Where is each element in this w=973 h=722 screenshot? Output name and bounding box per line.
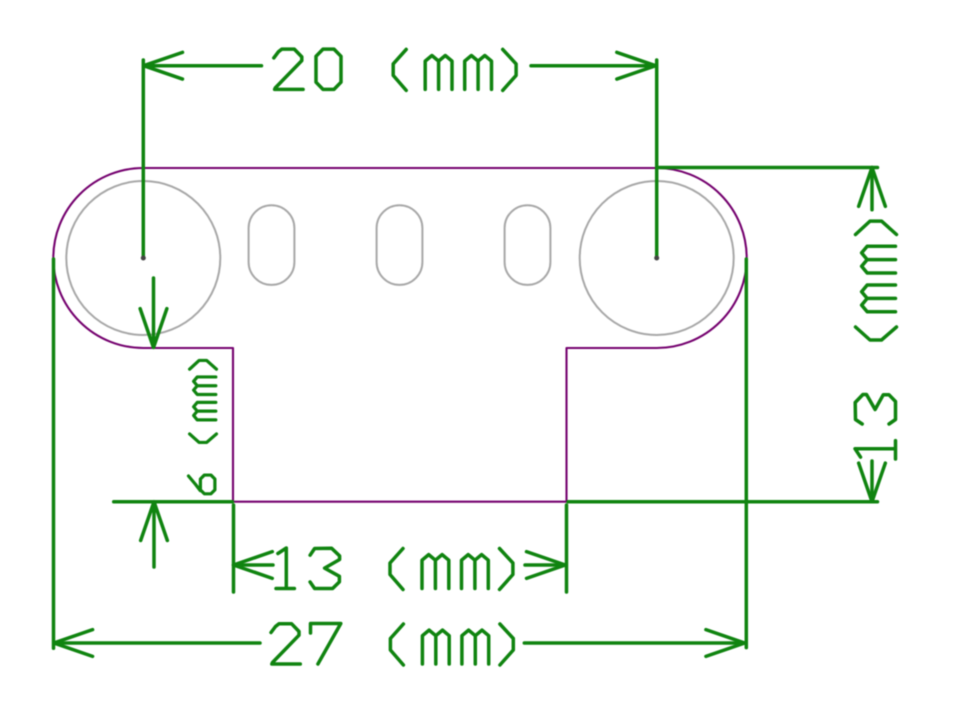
dimension bottom 13mm: left arrow bbox=[234, 552, 273, 579]
dimension right 13mm: dimension line segments bbox=[870, 168, 874, 502]
dimension 6mm: upper arrow (points down to tab top) bbox=[140, 278, 167, 348]
hole H1 (left big round hole) bbox=[66, 181, 220, 335]
dimension bottom 13mm: right extension line bbox=[565, 505, 569, 592]
dimension 27mm: dimension line segments bbox=[54, 641, 745, 645]
dimension 6mm: bottom extension line bbox=[114, 500, 233, 504]
center mark right hole bbox=[654, 256, 659, 261]
dimension 27mm: right extension line bbox=[745, 259, 749, 648]
dimension 27mm: left arrow bbox=[54, 630, 93, 657]
dimension bottom 13mm: dimension line segments bbox=[234, 563, 566, 567]
dimension 20mm: text "20 (mm)" bbox=[274, 49, 516, 90]
dimension right 13mm: top arrow bbox=[859, 168, 886, 207]
slot S2 bbox=[377, 205, 423, 285]
dimension right 13mm: bottom arrow bbox=[859, 463, 886, 502]
dimension right 13mm: bottom extension line bbox=[568, 500, 878, 504]
dimension right 13mm: text "13 (mm)" rotated bbox=[855, 221, 897, 459]
dimension right 13mm: top extension line bbox=[659, 166, 878, 170]
hole H2 (right big round hole) bbox=[580, 181, 734, 335]
dimension 20mm: right extension line bbox=[655, 60, 659, 258]
dimension 27mm: left extension line bbox=[52, 259, 56, 648]
slot S1 bbox=[249, 205, 295, 285]
dimension 20mm: right arrow bbox=[617, 52, 656, 79]
slot S3 bbox=[505, 205, 551, 285]
dimension 20mm: dimension line segments bbox=[144, 64, 656, 68]
dimension 6mm: text "6 (mm)" rotated small bbox=[188, 360, 216, 493]
part outline (purple plate with stadium ends and bottom tab) bbox=[53, 168, 746, 502]
dimension 27mm: text "27 (mm)" bbox=[271, 624, 513, 666]
dimension 20mm: left extension line bbox=[142, 60, 146, 258]
dimension bottom 13mm: right arrow bbox=[527, 552, 566, 579]
dimension bottom 13mm: text "13 (mm)" bbox=[276, 548, 513, 590]
dimension 20mm: left arrow bbox=[144, 52, 183, 79]
center mark left hole bbox=[141, 256, 146, 261]
dimension bottom 13mm: left extension line bbox=[232, 505, 236, 592]
dimension 6mm: lower arrow (points up to tab bottom) bbox=[141, 502, 168, 567]
dimension 27mm: right arrow bbox=[706, 630, 745, 657]
